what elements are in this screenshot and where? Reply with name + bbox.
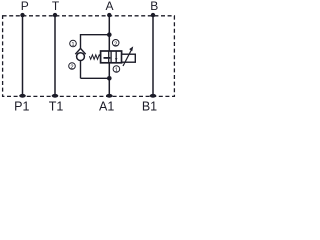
node A1 bottom [106,94,113,98]
node P1 bottom [19,94,26,98]
valve V1 left position: blocked poppet [108,51,110,57]
check valve CV seat [75,48,85,54]
svg-text:B1: B1 [142,99,157,113]
wire P line [22,15,24,96]
svg-text:A: A [105,0,113,13]
svg-text:T1: T1 [49,99,64,113]
svg-text:A1: A1 [99,99,114,113]
svg-text:T: T [52,0,60,13]
wire bypass top [81,34,110,36]
check valve CV ball [77,53,85,61]
svg-text:B: B [150,0,158,13]
wire bypass upper vertical [80,34,82,49]
node P top [20,13,24,17]
svg-text:1: 1 [71,42,74,48]
port label 1 (check valve) [70,40,77,48]
wire T line [54,15,56,96]
node A-bypass top junction [107,32,112,37]
svg-text:P1: P1 [14,99,29,113]
svg-text:2: 2 [114,41,117,47]
wire A line upper [108,15,110,51]
wire A line lower [108,62,110,96]
valve V1 proportional solenoid [122,54,136,62]
valve V1 spring [89,55,100,60]
node T top [53,13,57,17]
port label 2 (valve V1) [112,40,119,48]
port label 1 (valve V1) [113,66,120,74]
wire bypass lower vertical [80,60,82,78]
node A top [107,13,111,17]
svg-text:1: 1 [115,68,118,74]
wire bypass bottom [81,77,110,79]
port label 2 (check valve) [69,63,76,71]
manifold boundary (dashed) [3,16,175,97]
valve V1 body (two position boxes) [101,51,122,63]
svg-text:2: 2 [70,65,73,71]
node T1 bottom [52,94,59,98]
wire B line [152,15,154,96]
node B1 bottom [150,94,157,98]
node B top [151,13,155,17]
svg-text:P: P [21,0,29,13]
valve V1 solenoid arrow [123,50,132,67]
node A-bypass bottom junction [107,76,112,81]
valve V1 right position: flow arrow [115,52,117,63]
